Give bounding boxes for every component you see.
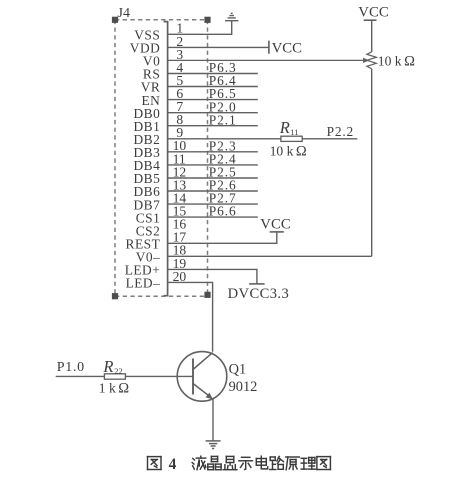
svg-text:9012: 9012	[229, 379, 258, 395]
wire pin 18 V0- to potentiometer bottom	[168, 255, 372, 257]
connector J4 body (vertical bar with end hooks)	[164, 22, 168, 296]
node P2.2 label	[327, 124, 354, 139]
ground symbol (top, at pin 1)	[225, 13, 238, 20]
transistor Q1 base bar	[192, 359, 194, 395]
node P1.0 label	[57, 360, 85, 375]
VCC net label at pin 17	[260, 216, 291, 232]
svg-text:P6.6: P6.6	[209, 204, 237, 219]
J4 pin number 16	[173, 217, 187, 232]
transistor Q1 emitter stroke (to top)	[193, 353, 213, 370]
wire pin 10 to net P2.3	[168, 151, 258, 153]
wire P1.0 through R22 to Q1 base	[56, 375, 193, 377]
J4 pin number 18	[173, 243, 187, 258]
node P2.3 label (pin 10)	[209, 138, 237, 153]
J4 pin 2 name label VDD	[130, 41, 161, 56]
wire potentiometer bottom down to pin 18 line	[371, 69, 373, 256]
resistor R22 value label 1 kOhm	[99, 381, 130, 397]
svg-text:4: 4	[169, 456, 177, 473]
J4 pin 4 name label RS	[143, 67, 160, 82]
node P6.6 label (pin 15)	[209, 204, 237, 219]
svg-text:11: 11	[290, 128, 298, 137]
VCC power symbol at pin 17 (bar)	[270, 231, 284, 233]
J4 pin number 4	[176, 60, 183, 75]
J4 pin number 10	[173, 138, 187, 153]
svg-text:P1.0: P1.0	[57, 360, 85, 375]
J4 pin 12 name label DB5	[133, 171, 160, 186]
J4 pin number 15	[173, 204, 187, 219]
svg-text:1 kΩ: 1 kΩ	[99, 381, 130, 397]
J4 pin 5 name label VR	[141, 80, 161, 95]
wire pin 17 REST to VCC bar	[168, 232, 277, 243]
node P2.1 label (pin 8)	[209, 112, 237, 127]
J4 pin 9 name label DB2	[133, 132, 160, 147]
J4 pin 14 name label DB7	[133, 197, 160, 212]
wire pin 14 to net P2.7	[168, 203, 258, 205]
J4 pin number 6	[176, 86, 183, 101]
svg-text:VCC: VCC	[260, 216, 291, 232]
wire pin 20 LED- down to Q1 emitter	[168, 282, 213, 351]
junction square bottom-left of J4 box	[112, 293, 118, 299]
wire pin 7 to net P2.0	[168, 112, 258, 114]
wire pin 1 VSS to ground	[168, 21, 232, 35]
J4 pin number 1	[176, 21, 183, 36]
connector J4 reference designator label	[118, 6, 130, 21]
resistor R11 value label 10 kOhm	[270, 143, 307, 159]
junction square top-right of J4 box	[204, 17, 210, 23]
DVCC3.3 power symbol (bar)	[249, 283, 264, 285]
wire pin 15 to net P6.6	[168, 216, 258, 218]
wire pin 4 to net P6.3	[168, 73, 258, 75]
connector J4 dashed outline box	[115, 20, 208, 296]
svg-text:P2.1: P2.1	[209, 112, 237, 127]
J4 pin number 8	[176, 112, 183, 127]
J4 pin number 9	[176, 125, 183, 140]
transistor Q1 collector stroke with arrow	[193, 384, 213, 400]
transistor Q1 reference label	[229, 361, 247, 377]
J4 pin 1 name label VSS	[134, 28, 160, 43]
J4 pin 3 name label V0	[143, 54, 160, 69]
wire pin 2 VDD to VCC	[168, 46, 269, 48]
svg-text:R: R	[279, 118, 290, 137]
svg-text:Q1: Q1	[229, 361, 247, 377]
J4 pin 19 name label LED+	[125, 263, 161, 278]
resistor R11 body	[281, 136, 302, 141]
J4 pin 7 name label DB0	[133, 106, 160, 121]
svg-text:22: 22	[114, 367, 122, 376]
wire pin 8 to net P2.1	[168, 125, 258, 127]
junction square bottom-right of J4 box	[204, 292, 210, 298]
node P6.3 label (pin 4)	[209, 60, 237, 75]
J4 pin 17 name label REST	[126, 237, 161, 252]
svg-text:DVCC3.3: DVCC3.3	[228, 286, 290, 302]
caption figure number 4	[169, 456, 177, 473]
wire pin 9 DB2 through R11 to P2.2	[168, 138, 358, 140]
wire pin 5 to net P6.4	[168, 86, 258, 88]
J4 pin number 12	[173, 164, 187, 179]
svg-text:R: R	[102, 357, 113, 376]
J4 pin number 19	[173, 256, 187, 271]
J4 pin number 20	[173, 269, 187, 284]
node P2.5 label (pin 12)	[209, 165, 237, 180]
J4 pin number 17	[173, 230, 187, 245]
potentiometer value label 10 kOhm	[378, 53, 415, 69]
wire pin 12 to net P2.5	[168, 177, 258, 179]
wire VCC bar to potentiometer top	[371, 20, 373, 52]
wire pin 11 to net P2.4	[168, 164, 258, 166]
VCC net label above potentiometer	[358, 5, 389, 21]
resistor R22 body	[104, 374, 125, 379]
transistor Q1 circle	[177, 352, 227, 402]
node P6.4 label (pin 5)	[209, 73, 237, 88]
svg-text:20: 20	[173, 269, 187, 284]
J4 pin number 7	[176, 99, 183, 114]
node P2.0 label (pin 7)	[209, 99, 237, 114]
node P2.4 label (pin 11)	[209, 152, 237, 167]
svg-text:10 kΩ: 10 kΩ	[378, 53, 415, 69]
J4 pin 15 name label CS1	[136, 210, 161, 225]
J4 pin number 2	[176, 34, 183, 49]
wire pin 3 V0 to potentiometer wiper (arrow)	[168, 58, 370, 63]
svg-text:J4: J4	[118, 6, 130, 21]
svg-text:10 kΩ: 10 kΩ	[270, 143, 307, 159]
J4 pin number 14	[173, 191, 187, 206]
node P2.7 label (pin 14)	[209, 191, 237, 206]
transistor Q1 part number 9012	[229, 379, 258, 395]
J4 pin number 13	[173, 177, 187, 192]
svg-text:LED–: LED–	[126, 276, 161, 291]
wire pin 13 to net P2.6	[168, 190, 258, 192]
svg-text:P2.2: P2.2	[327, 124, 354, 139]
DVCC3.3 net label	[228, 286, 290, 302]
J4 pin 8 name label DB1	[133, 119, 160, 134]
wire Q1 collector down to ground	[212, 399, 214, 441]
resistor R11 reference label	[279, 118, 299, 137]
VCC power symbol above potentiometer (bar)	[364, 19, 377, 21]
caption: figure 4 LCD display circuit schematic (Chinese)	[148, 456, 331, 470]
J4 pin number 3	[176, 47, 183, 62]
J4 pin 18 name label V0–	[136, 250, 161, 265]
resistor R22 reference label	[102, 357, 122, 376]
J4 pin number 11	[173, 151, 186, 166]
VCC net label at pin 2	[272, 40, 303, 56]
junction square top-left of J4 box	[112, 17, 118, 23]
VCC power symbol at pin 2 (bar)	[268, 41, 270, 54]
wire pin 19 LED+ to DVCC3.3 bar	[168, 269, 257, 284]
J4 pin 16 name label CS2	[136, 223, 161, 238]
ground symbol (bottom, below Q1)	[206, 441, 221, 449]
J4 pin 10 name label DB3	[133, 145, 160, 160]
node P6.5 label (pin 6)	[209, 86, 237, 101]
J4 pin number 5	[176, 73, 183, 88]
J4 pin 13 name label DB6	[133, 184, 160, 199]
potentiometer 10 kOhm (zigzag body)	[367, 52, 376, 69]
J4 pin 11 name label DB4	[133, 158, 160, 173]
J4 pin 6 name label EN	[141, 93, 160, 108]
J4 pin 20 name label LED–	[126, 276, 161, 291]
wire pin 6 to net P6.5	[168, 99, 258, 101]
svg-text:VCC: VCC	[272, 40, 303, 56]
node P2.6 label (pin 13)	[209, 178, 237, 193]
svg-text:VCC: VCC	[358, 5, 389, 21]
